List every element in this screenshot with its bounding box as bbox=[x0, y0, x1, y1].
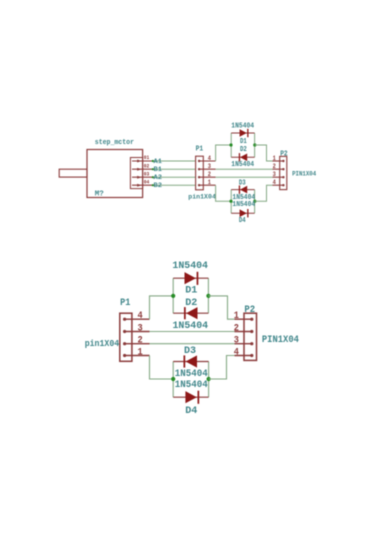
P2 pin 3 (top) bbox=[273, 176, 284, 178]
svg-text:D2: D2 bbox=[185, 297, 197, 309]
junction dot loop2 right bbox=[253, 200, 256, 203]
svg-text:04: 04 bbox=[144, 178, 150, 185]
wire loop1 right vertical (bottom) bbox=[207, 278, 209, 313]
wire net B1 bbox=[154, 168, 195, 170]
wire net A1 bbox=[154, 160, 195, 162]
wire P1.2 to P2.3 (bottom) bbox=[150, 343, 235, 345]
connector P2 (top) bbox=[280, 156, 287, 189]
junction dot A1 bbox=[152, 160, 154, 162]
motor pin 3 bbox=[132, 176, 154, 178]
svg-text:D1: D1 bbox=[240, 138, 247, 146]
diode D2 (bottom) bbox=[173, 312, 208, 314]
svg-text:1: 1 bbox=[208, 179, 212, 186]
svg-text:P1: P1 bbox=[120, 298, 130, 309]
P2 pin 4 (top) bbox=[273, 184, 284, 186]
svg-text:P2: P2 bbox=[244, 305, 255, 316]
svg-text:P1: P1 bbox=[196, 146, 204, 154]
junction dot loop2 left bbox=[229, 200, 232, 203]
svg-text:A1: A1 bbox=[154, 158, 163, 166]
wire diode pair to P2.4 bbox=[255, 185, 273, 201]
P1 pin 4 (top) bbox=[198, 160, 200, 162]
diode D3 (bottom) bbox=[173, 361, 208, 363]
svg-text:D1: D1 bbox=[185, 284, 197, 296]
wire loop1 left vertical bbox=[230, 133, 232, 157]
svg-text:2: 2 bbox=[234, 323, 239, 334]
svg-text:A2: A2 bbox=[154, 174, 163, 182]
svg-text:4: 4 bbox=[234, 347, 239, 358]
motor pin 4 bbox=[132, 184, 154, 186]
wire diode pair to P2.4 (bottom) bbox=[209, 356, 235, 380]
svg-text:D3: D3 bbox=[239, 180, 246, 188]
svg-text:1N5404: 1N5404 bbox=[231, 161, 254, 169]
svg-text:3: 3 bbox=[234, 336, 239, 347]
P1 pin 1 (top) bbox=[198, 184, 200, 186]
junction dot loop1 right (bottom) bbox=[206, 294, 210, 298]
diode D4 (top) bbox=[231, 212, 254, 214]
diode D3 (top) bbox=[231, 189, 254, 191]
P1 pin 2 (bottom) bbox=[123, 342, 126, 345]
motor pin box bbox=[130, 158, 142, 189]
diode D1 (bottom) bbox=[173, 277, 208, 279]
svg-text:3: 3 bbox=[138, 323, 143, 334]
svg-text:1N5404: 1N5404 bbox=[175, 368, 208, 380]
svg-text:D2: D2 bbox=[240, 146, 247, 154]
svg-text:4: 4 bbox=[138, 311, 143, 322]
P2 pin 2 (top) bbox=[273, 168, 284, 170]
wire loop2 right vertical bbox=[254, 190, 256, 214]
svg-text:B2: B2 bbox=[154, 182, 163, 190]
wire loop2 left vertical (bottom) bbox=[172, 362, 174, 398]
wire P1.4 to diode pair D1/D2 bbox=[216, 145, 231, 161]
svg-text:3: 3 bbox=[273, 171, 277, 178]
junction dot B2 bbox=[152, 184, 154, 186]
svg-text:M?: M? bbox=[95, 191, 104, 199]
P2 pin 1 (bottom) bbox=[235, 318, 252, 320]
svg-text:3: 3 bbox=[208, 163, 212, 170]
junction dot loop1 left bbox=[229, 143, 232, 146]
motor M? body bbox=[87, 150, 143, 198]
junction dot loop1 right bbox=[253, 143, 256, 146]
svg-text:02: 02 bbox=[144, 162, 150, 169]
junction dot loop1 left (bottom) bbox=[171, 294, 175, 298]
wire net A2 bbox=[154, 176, 195, 178]
svg-text:1N5404: 1N5404 bbox=[173, 320, 209, 332]
diode D2 (top) bbox=[231, 156, 254, 158]
svg-text:4: 4 bbox=[208, 155, 212, 162]
svg-text:03: 03 bbox=[144, 170, 150, 177]
P2 pin 2 (bottom) bbox=[235, 331, 252, 333]
P1 pin 3 (top) bbox=[198, 168, 200, 170]
P1 pin 3 (bottom) bbox=[123, 330, 126, 333]
wire diode pair to P2.1 (bottom) bbox=[208, 296, 234, 319]
wire diode pair to P2.1 bbox=[255, 145, 273, 161]
wire P1.4 to diode pair D1/D2 (bottom) bbox=[150, 296, 174, 319]
svg-text:D4: D4 bbox=[185, 405, 197, 417]
svg-text:1: 1 bbox=[138, 347, 143, 358]
svg-text:PIN1X04: PIN1X04 bbox=[262, 335, 299, 346]
junction dot A2 bbox=[152, 176, 154, 178]
P1 pin 2 (top) bbox=[198, 176, 200, 178]
diode D4 (bottom) bbox=[173, 396, 208, 398]
connector P1 (top) bbox=[196, 156, 204, 190]
svg-text:1N5404: 1N5404 bbox=[232, 201, 255, 209]
diode D1 (top) bbox=[231, 132, 254, 134]
svg-text:1: 1 bbox=[273, 155, 277, 162]
svg-text:4: 4 bbox=[273, 179, 277, 186]
wire loop2 right vertical (bottom) bbox=[208, 362, 210, 398]
svg-text:1: 1 bbox=[234, 311, 239, 322]
wire P1.3 to P2.2 bbox=[216, 168, 273, 170]
wire net B2 bbox=[154, 184, 195, 186]
svg-text:PIN1X04: PIN1X04 bbox=[292, 170, 316, 178]
motor M? shaft bbox=[59, 169, 87, 177]
svg-text:P2: P2 bbox=[280, 151, 288, 159]
svg-text:D3: D3 bbox=[184, 345, 196, 357]
wire loop2 left vertical bbox=[230, 190, 232, 214]
wire P1.1 to diode pair D3/D4 (bottom) bbox=[150, 356, 174, 380]
svg-text:step_mctor: step_mctor bbox=[95, 139, 134, 147]
svg-text:pin1X04: pin1X04 bbox=[85, 338, 120, 349]
P1 pin 4 (bottom) bbox=[123, 318, 126, 321]
svg-text:D4: D4 bbox=[239, 217, 246, 225]
wire P1.2 to P2.3 bbox=[216, 176, 273, 178]
wire loop1 left vertical (bottom) bbox=[172, 278, 174, 313]
junction dot loop2 left (bottom) bbox=[171, 377, 175, 381]
svg-text:01: 01 bbox=[144, 154, 150, 161]
connector P1 (bottom) bbox=[120, 313, 132, 361]
svg-text:1N5404: 1N5404 bbox=[175, 379, 208, 391]
svg-text:B1: B1 bbox=[154, 166, 163, 174]
wire loop1 right vertical bbox=[254, 133, 256, 157]
wire P1.1 to diode pair D3/D4 bbox=[216, 185, 231, 201]
svg-text:1N5404: 1N5404 bbox=[231, 123, 254, 131]
P2 pin 4 (bottom) bbox=[235, 355, 252, 357]
svg-text:2: 2 bbox=[138, 336, 143, 347]
svg-text:2: 2 bbox=[273, 163, 277, 170]
motor pin 1 bbox=[132, 160, 154, 162]
junction dot loop2 right (bottom) bbox=[207, 377, 211, 381]
motor pin 2 bbox=[132, 168, 154, 170]
svg-text:pin1X04: pin1X04 bbox=[188, 193, 216, 201]
P2 pin 1 (top) bbox=[273, 160, 284, 162]
connector P2 (bottom) bbox=[244, 313, 257, 360]
wire P1.3 to P2.2 (bottom) bbox=[150, 331, 235, 333]
svg-text:1N5404: 1N5404 bbox=[172, 260, 208, 272]
junction dot B1 bbox=[152, 168, 154, 170]
P2 pin 3 (bottom) bbox=[235, 343, 252, 345]
svg-text:2: 2 bbox=[208, 171, 212, 178]
P1 pin 1 (bottom) bbox=[123, 354, 126, 357]
